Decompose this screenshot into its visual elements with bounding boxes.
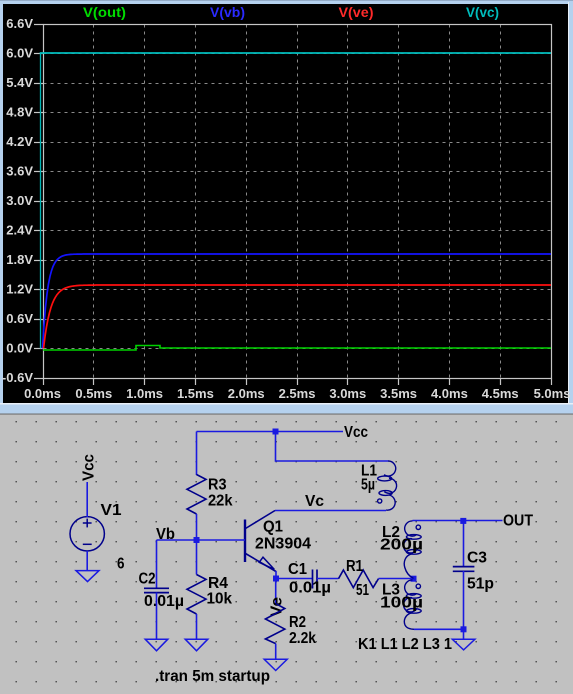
svg-text:2.5ms: 2.5ms <box>279 386 316 401</box>
svg-text:10k: 10k <box>207 591 233 608</box>
svg-text:2.2k: 2.2k <box>289 630 316 647</box>
svg-text:4.8V: 4.8V <box>6 105 33 120</box>
inductor L1 <box>378 461 397 510</box>
legend <box>83 5 499 20</box>
wire Vc collector <box>275 510 386 512</box>
svg-text:C3: C3 <box>467 550 487 567</box>
svg-text:4.0ms: 4.0ms <box>431 386 468 401</box>
ground under R4 <box>185 639 208 651</box>
svg-text:Vcc: Vcc <box>81 454 98 481</box>
svg-text:R2: R2 <box>289 614 306 631</box>
capacitor C2 <box>144 588 169 592</box>
wire R1 to tap <box>379 578 414 580</box>
capacitor C3 <box>453 567 475 572</box>
inductor L3 <box>404 580 422 629</box>
svg-text:R1: R1 <box>346 558 363 575</box>
svg-text:3.5ms: 3.5ms <box>380 386 417 401</box>
svg-text:.tran 5m startup: .tran 5m startup <box>155 668 270 685</box>
svg-text:3.0ms: 3.0ms <box>329 386 366 401</box>
resistor R4 <box>187 575 206 615</box>
svg-text:200µ: 200µ <box>380 537 423 554</box>
svg-text:0.6V: 0.6V <box>6 311 33 326</box>
junction node L3 C3 ground <box>461 626 467 632</box>
wire emitter to C1 <box>276 578 313 580</box>
svg-text:Vc: Vc <box>305 493 324 510</box>
svg-text:22k: 22k <box>208 493 233 510</box>
svg-text:2.0ms: 2.0ms <box>228 386 265 401</box>
svg-text:1.5ms: 1.5ms <box>177 386 214 401</box>
svg-text:0.01µ: 0.01µ <box>289 580 331 597</box>
resistor R3 <box>187 475 206 515</box>
wire R2 bottom <box>275 644 277 660</box>
ground under R2 <box>264 659 287 670</box>
svg-text:Vb: Vb <box>156 526 175 543</box>
svg-text:R4: R4 <box>208 575 228 592</box>
svg-text:4.2V: 4.2V <box>6 134 33 149</box>
svg-text:1.0ms: 1.0ms <box>126 386 163 401</box>
svg-text:6.6V: 6.6V <box>6 16 33 31</box>
svg-text:V(ve): V(ve) <box>339 5 374 20</box>
transistor Q1 <box>245 511 276 572</box>
wire emitter to R2 <box>275 579 277 604</box>
ground under C3 <box>452 639 475 650</box>
svg-text:1.8V: 1.8V <box>6 252 33 267</box>
svg-text:0.0ms: 0.0ms <box>24 386 61 401</box>
wire Vb rail <box>157 539 246 541</box>
svg-text:OUT: OUT <box>503 513 533 530</box>
svg-text:5µ: 5µ <box>361 477 375 494</box>
wire R4 bottom <box>196 614 198 639</box>
y labels <box>2 16 33 385</box>
svg-text:Q1: Q1 <box>263 519 283 536</box>
svg-text:-0.6V: -0.6V <box>2 370 33 385</box>
svg-text:V(vb): V(vb) <box>210 5 245 20</box>
inductor L2 <box>404 521 422 579</box>
svg-text:V(out): V(out) <box>83 5 126 20</box>
svg-text:Vcc: Vcc <box>344 424 368 441</box>
wire C2 drop <box>156 540 158 588</box>
svg-text:4.5ms: 4.5ms <box>482 386 519 401</box>
ground under C2 <box>145 639 168 651</box>
wire C1 to R1 <box>317 578 339 580</box>
traces <box>40 53 42 349</box>
svg-text:0.0V: 0.0V <box>6 341 33 356</box>
window borders <box>0 0 573 4</box>
wire Vcc rail to L1 top <box>276 432 389 462</box>
wire R3 to R4 <box>196 514 198 575</box>
wire emitter stub <box>275 571 277 579</box>
wire C3 top <box>463 521 465 567</box>
junction node emitter <box>273 576 279 582</box>
wire L3 bottom rail <box>414 628 464 630</box>
svg-text:V1: V1 <box>101 502 122 519</box>
svg-text:51: 51 <box>356 582 369 599</box>
svg-text:K1 L1 L2 L3 1: K1 L1 L2 L3 1 <box>358 636 452 653</box>
svg-text:6: 6 <box>117 556 125 573</box>
svg-text:0.01µ: 0.01µ <box>144 593 184 610</box>
svg-text:51p: 51p <box>467 576 494 593</box>
junction node Vb <box>194 537 200 543</box>
svg-text:C2: C2 <box>139 571 156 588</box>
wire V1 bottom <box>86 551 88 571</box>
svg-text:0.5ms: 0.5ms <box>75 386 112 401</box>
ticks <box>34 25 552 386</box>
svg-text:100µ: 100µ <box>380 595 423 612</box>
junction node Vcc rail <box>273 429 279 435</box>
capacitor C1 <box>313 570 318 589</box>
x labels <box>24 386 570 401</box>
junction node C3 top <box>460 518 466 524</box>
svg-text:3.0V: 3.0V <box>6 193 33 208</box>
resistor R2 <box>265 604 284 644</box>
svg-text:3.6V: 3.6V <box>6 164 33 179</box>
svg-text:2.4V: 2.4V <box>6 223 33 238</box>
svg-text:V(vc): V(vc) <box>466 5 499 20</box>
wire top rail Vcc <box>197 431 344 433</box>
svg-text:2N3904: 2N3904 <box>255 536 311 553</box>
wire V1 top <box>86 482 88 517</box>
resistor R1 <box>339 570 379 588</box>
svg-text:6.0V: 6.0V <box>6 46 33 61</box>
svg-text:C1: C1 <box>288 561 307 578</box>
svg-text:R3: R3 <box>208 477 227 494</box>
svg-text:5.4V: 5.4V <box>6 75 33 90</box>
wire C2 bottom <box>156 593 158 640</box>
wire ground stub <box>463 629 465 639</box>
wire R3 top drop <box>196 432 198 476</box>
svg-text:5.0ms: 5.0ms <box>534 386 571 401</box>
svg-text:1.2V: 1.2V <box>6 282 33 297</box>
wire top right rail OUT <box>413 520 503 522</box>
wire C3 bottom <box>463 571 465 629</box>
ground under V1 <box>76 571 99 582</box>
voltage source V1 <box>70 517 104 551</box>
junction node tap L2 L3 <box>411 576 417 582</box>
